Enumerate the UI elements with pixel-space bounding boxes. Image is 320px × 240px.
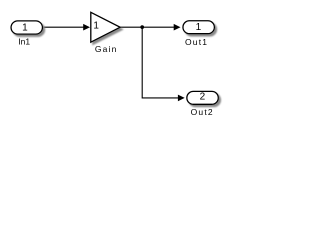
inport block In1 (11, 21, 42, 34)
svg-text:1: 1 (196, 22, 202, 33)
wire junction down to Out2 row (142, 27, 178, 98)
svg-text:1: 1 (22, 22, 28, 33)
svg-text:2: 2 (200, 92, 206, 103)
outport block Out2 (187, 91, 218, 104)
svg-text:1: 1 (93, 21, 99, 32)
outport block Out1 (183, 21, 214, 34)
arrowhead at Gain input (83, 24, 90, 31)
svg-text:Out2: Out2 (191, 107, 214, 117)
wire Gain to junction to Out1 (120, 26, 175, 28)
wire In1 to Gain (43, 26, 85, 28)
svg-text:Out1: Out1 (185, 37, 208, 47)
node junction dot (140, 25, 144, 29)
gain block Gain: triangle (91, 12, 120, 42)
arrowhead at Out1 input (174, 24, 181, 31)
svg-text:In1: In1 (18, 37, 30, 47)
svg-text:Gain: Gain (95, 44, 118, 54)
arrowhead at Out2 input (178, 95, 185, 102)
